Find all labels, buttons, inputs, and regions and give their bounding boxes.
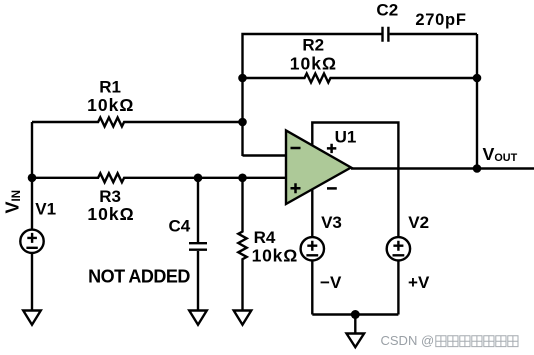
- node: VIN/V1 junction: [28, 174, 37, 183]
- node: R2/C2 right junction: [473, 74, 482, 83]
- svg-text:VIN: VIN: [2, 190, 23, 214]
- source V2: [387, 237, 410, 314]
- svg-text:CSDN @: CSDN @: [381, 333, 435, 348]
- op-amp U1 supply rail box: [312, 123, 398, 238]
- svg-text:−V: −V: [320, 273, 342, 292]
- svg-text:270pF: 270pF: [415, 11, 466, 29]
- op-amp inverting input symbol: [291, 147, 301, 150]
- ground (R4): [234, 311, 252, 325]
- svg-text:VOUT: VOUT: [483, 144, 518, 164]
- svg-text:R4: R4: [254, 228, 276, 247]
- ground (V1): [23, 311, 41, 325]
- node: R4 junction: [238, 174, 247, 183]
- wire: left vertical from R1 down to VIN wire: [31, 122, 33, 178]
- capacitor C4 with wires: [189, 178, 207, 310]
- op-amp negative supply symbol: [327, 187, 337, 190]
- svg-text:+V: +V: [408, 273, 430, 292]
- watermark chinese glyph blocks: [436, 336, 518, 347]
- op-amp positive supply symbol: [327, 144, 336, 153]
- resistor R4 with wires: [238, 178, 246, 310]
- svg-text:V2: V2: [408, 213, 429, 232]
- resistor R3 with VIN wire to non-inverting input: [32, 173, 287, 182]
- source V1: [20, 178, 43, 310]
- svg-text:NOT ADDED: NOT ADDED: [88, 266, 190, 286]
- svg-text:10kΩ: 10kΩ: [252, 245, 298, 265]
- svg-text:C2: C2: [376, 0, 398, 19]
- wire: feedback left vertical + top horizontal to C2: [243, 34, 382, 156]
- svg-text:C4: C4: [169, 217, 191, 236]
- svg-text:U1: U1: [335, 127, 357, 146]
- svg-text:R1: R1: [99, 77, 121, 96]
- svg-text:10kΩ: 10kΩ: [290, 53, 337, 73]
- source V3: [301, 237, 324, 314]
- svg-text:10kΩ: 10kΩ: [87, 95, 134, 115]
- wire: supply bottom rail: [312, 313, 398, 315]
- wire: output from op-amp to right edge: [351, 167, 534, 169]
- node: output/feedback junction: [473, 164, 482, 173]
- resistor R1 with wire: [32, 118, 243, 127]
- op-amp U1 triangle: [286, 131, 351, 205]
- op-amp non-inverting input symbol: [291, 183, 301, 193]
- resistor R2 with wire: [243, 74, 478, 83]
- wire: ground stub: [354, 315, 356, 334]
- node: R2/C2 left junction: [238, 74, 247, 83]
- node: R1 to feedback junction: [238, 118, 247, 127]
- node: supply ground junction: [351, 310, 360, 319]
- capacitor C2: [383, 27, 389, 42]
- ground (supplies): [347, 334, 365, 348]
- svg-text:V1: V1: [35, 200, 56, 219]
- svg-text:R2: R2: [302, 36, 324, 55]
- svg-text:V3: V3: [321, 213, 342, 232]
- wire: inverting input stub: [243, 154, 288, 156]
- node: C4 junction: [194, 174, 203, 183]
- wire: feedback right vertical (C2/R2 node down to output): [476, 34, 478, 169]
- ground (C4): [189, 311, 207, 325]
- svg-text:10kΩ: 10kΩ: [87, 204, 134, 224]
- wire: top horizontal from C2 to right vertical: [390, 33, 477, 35]
